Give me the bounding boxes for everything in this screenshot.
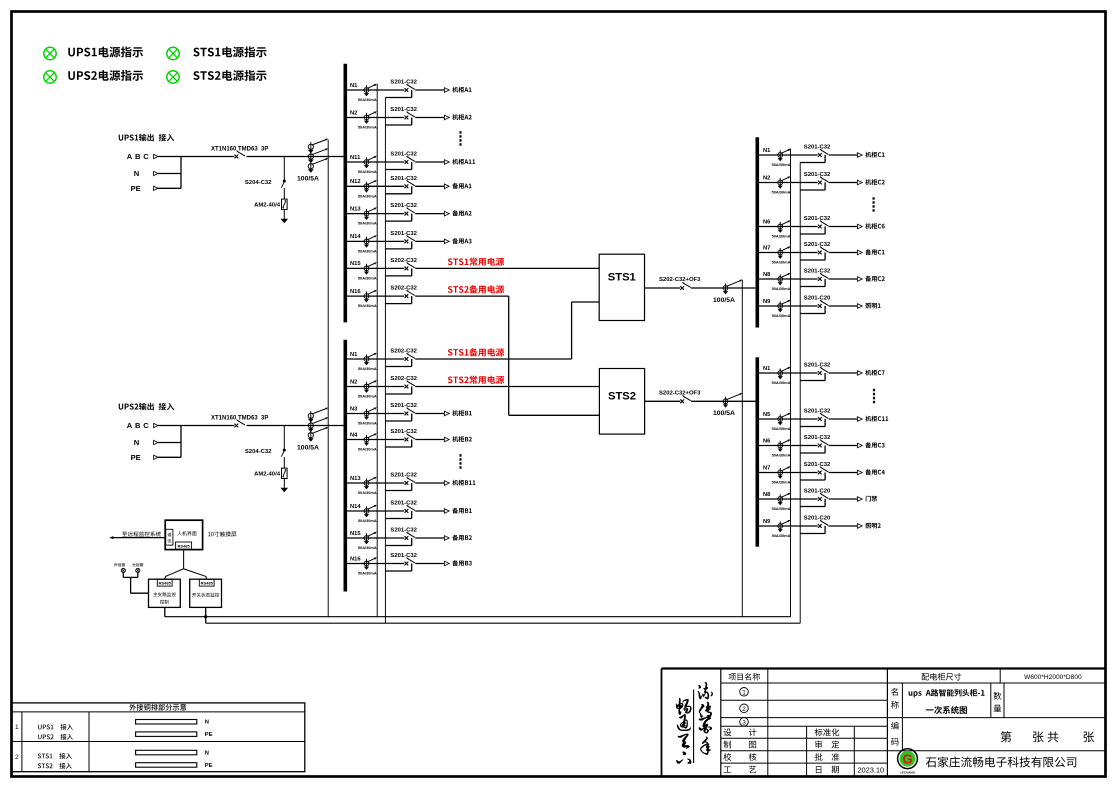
wire breaker to load (N3) [415,413,444,415]
wire busbar to breaker (N9) [759,525,818,527]
wire breaker to load (N5) [829,418,858,420]
label 备用A3 [452,238,471,244]
label 光报警 [132,563,143,567]
table title row line [12,711,305,713]
label 名称 [891,688,899,709]
wire RS485 bus split [165,549,207,579]
wire switch-status collector (left panels) [384,98,386,623]
label STS2 [608,391,636,403]
svg-text:2: 2 [742,706,746,713]
wire UPS2-N1 riser to STS1 standby input [572,302,600,359]
leakage CT 50A/30mA (N2) [364,380,377,393]
label S201-C32 (N2) [804,172,831,178]
wire breaker status stub (N8) [800,499,825,507]
wire busbar to breaker (N13) [347,213,404,215]
label S204-C32 [245,180,272,186]
wire breaker output (N2) [415,386,599,388]
svg-text:XT1N160 TMD63 3P: XT1N160 TMD63 3P [211,147,268,153]
terminal N [154,440,158,444]
leakage CT 50A/30mA (N7) [778,466,791,479]
label UPS1输出 接入 [119,134,174,141]
svg-text:1: 1 [742,689,746,696]
leakage CT 50A/30mA (N8) [778,273,791,286]
node N16 [350,289,361,295]
calligraphy 畅通天下 [676,698,691,763]
label row 2 [15,754,19,761]
leakage CT 50A/30mA (N1) [778,149,791,162]
wire breaker output (N15) [415,267,599,269]
wire breaker status stub (N6) [800,227,825,235]
wire breaker to load (N8) [829,498,858,500]
title col line c [853,726,855,776]
leakage CT 50A/30mA (N2) [364,111,377,124]
svg-text:50A/30mA: 50A/30mA [772,453,791,458]
terminal ABC [154,423,158,427]
load arrow (照明1) [857,304,862,309]
node N1 [763,366,771,372]
label STS1电源指示 [193,47,266,58]
wire busbar to breaker (N12) [347,185,404,187]
numbered item 3 [740,718,749,727]
branch monitor controller box 主支路监控控制 [149,579,181,607]
label S201-C32 (N2) [390,107,417,113]
svg-text:2023.10: 2023.10 [857,765,884,774]
label 50A/30mA (N8) [772,286,791,291]
svg-text:S201-C32: S201-C32 [390,203,417,209]
svg-text:S201-C32: S201-C32 [390,107,417,113]
label 50A/30mA (N13) [358,490,377,495]
label S204-C32 [245,449,272,455]
label 校核 [723,753,756,761]
title row line L6 [721,762,888,764]
svg-text:2: 2 [15,754,19,761]
load arrow (机柜A11) [444,160,449,165]
wire N [158,173,181,175]
leakage CT 50A/30mA (N12) [364,180,377,193]
label 批准 [815,753,840,761]
wire breaker to busbar [247,156,344,158]
wire busbar to breaker (N1) [759,372,818,374]
wire breaker status stub (N14) [385,241,411,249]
wire N [158,442,181,444]
load arrow (机柜B11) [444,481,449,486]
svg-text:50A/30mA: 50A/30mA [358,275,377,280]
breaker S202-C32 (N15) [405,263,415,271]
svg-text:S201-C32: S201-C32 [390,528,417,534]
wire breaker to load (N1) [829,372,858,374]
node N1 [763,148,771,154]
label PE (row2) [205,763,213,769]
label S201-C32 (N1) [804,145,831,151]
STS1 static transfer switch box [599,254,644,320]
svg-text:N15: N15 [350,531,361,537]
label 50A/30mA (N14) [358,518,377,523]
label 外接铜排部分示意 [129,704,186,711]
wire breaker status stub (N15) [385,268,411,276]
label 门禁 [866,496,878,502]
leakage CT 50A/30mA (N1) [364,84,377,97]
leakage CT 50A/30mA (N6) [778,439,791,452]
wire breaker status stub (N1) [800,155,825,163]
svg-text:50A/30mA: 50A/30mA [358,490,377,495]
svg-text:W600*H2000*D800: W600*H2000*D800 [1024,674,1082,681]
title col line a [767,669,769,777]
svg-text:100/5A: 100/5A [713,410,735,417]
wire busbar to breaker (N7) [759,472,818,474]
label S202-C32+OF3 [659,277,701,283]
label 50A/30mA (N2) [772,190,791,195]
node N5 [763,412,771,418]
leakage CT 50A/30mA (N8) [778,493,791,506]
label 机柜A2 [452,114,471,120]
wire breaker status stub (N13) [385,483,411,491]
svg-text:50A/30mA: 50A/30mA [772,162,791,167]
label 100/5A [297,176,319,183]
RS485 port box (branch monitor) [157,579,172,586]
leakage CT 50A/30mA (N9) [778,520,791,533]
label 50A/30mA (N7) [772,480,791,485]
label UPS1 接入 [38,724,73,730]
label S201-C32 (N4) [390,429,417,435]
label AM2-40/4 [254,472,281,478]
svg-text:N3: N3 [350,406,358,412]
wire breaker to load (N7) [829,472,858,474]
load arrow (备用C2) [857,277,862,282]
wire busbar to breaker (N15) [347,267,404,269]
breaker S201-C32 (N14) [405,505,415,513]
svg-text:50A/30mA: 50A/30mA [358,394,377,399]
svg-text:S201-C32: S201-C32 [804,363,831,369]
dots between B2 and B11 [459,454,461,469]
svg-text:50A/30mA: 50A/30mA [358,97,377,102]
dots between C7 and C11 [873,389,875,404]
node N6 [763,219,771,225]
label 工艺 [724,766,757,774]
svg-text:50A/30mA: 50A/30mA [772,480,791,485]
wire breaker to load (N9) [829,525,858,527]
label 50A/30mA (N1) [358,366,377,371]
wire breaker to load (N7) [829,252,858,254]
svg-text:S201-C32: S201-C32 [804,462,831,468]
label S201-C32 (N12) [390,176,417,182]
surge protector AM2-40/4 with switch S204-C32 and ground [281,157,289,224]
load arrow (照明2) [857,524,862,529]
breaker S202-C32+OF3 [680,395,690,403]
current transformer 100/5A [723,393,742,408]
label 50A/30mA (N5) [772,426,791,431]
label 机柜C6 [865,223,884,229]
title row line L1 [721,699,888,701]
label STS1常用电源 [448,258,504,266]
label S201-C32 (N1) [804,363,831,369]
wire busbar to breaker (N6) [759,445,818,447]
label 照明1 [865,303,880,309]
svg-text:S201-C20: S201-C20 [804,516,831,522]
label 备用B1 [452,508,471,514]
label S201-C32 (N13) [390,473,417,479]
wire breaker status stub (N15) [385,538,411,546]
leakage CT 50A/30mA (N11) [364,156,377,169]
label 开关状态监控 [192,593,219,597]
label W600*H2000*D800 [1024,674,1082,681]
svg-text:100/5A: 100/5A [713,297,735,304]
label S201-C20 (N9) [804,516,831,522]
label S201-C32 (N3) [390,403,417,409]
breaker S201-C20 (N9) [818,300,828,308]
wire N-PE junction vertical [180,426,182,458]
switch status monitor box 开关状态监控 [190,579,222,607]
label 机柜B1 [452,410,471,416]
node N9 [763,519,771,525]
table col line 1 [21,712,23,772]
leakage CT 50A/30mA (N3) [364,407,377,420]
copper bar PE (row2) [136,763,197,768]
label 机柜C7 [865,370,884,376]
label S201-C32 (N7) [804,242,831,248]
load arrow (备用C3) [857,443,862,448]
breaker S201-C32 (N1) [818,149,828,157]
wire PE [158,187,181,189]
svg-text:N: N [205,720,209,726]
wire PE [158,456,181,458]
wire branch-CT collector (left panels) [376,84,378,617]
label 50A/30mA (N16) [358,571,377,576]
breaker S201-C32 (N11) [405,156,415,164]
leakage CT 50A/30mA (N1) [778,367,791,380]
svg-text:50A/30mA: 50A/30mA [772,313,791,318]
breaker S201-C32 (N8) [818,273,828,281]
svg-text:N2: N2 [350,379,357,385]
calligraphy divider stroke [693,690,695,764]
wire breaker to load (N4) [415,439,444,441]
breaker S201-C32 (N1) [818,367,828,375]
wire breaker to load (N16) [415,563,444,565]
label 100/5A [297,445,319,452]
wire breaker status stub (N16) [385,564,411,572]
dots between A2 and A11 [459,131,461,146]
breaker S201-C32 (N6) [818,221,828,229]
label 声报警 [114,563,125,567]
label 机柜A1 [452,87,471,93]
label S201-C32 (N5) [804,409,831,415]
svg-text:S201-C32: S201-C32 [804,269,831,275]
wire busbar to breaker (N8) [759,278,818,280]
svg-text:100/5A: 100/5A [297,445,319,452]
breaker S201-C32 (N1) [405,84,415,92]
label 编码 [891,722,899,746]
leakage CT 50A/30mA (N6) [778,220,791,233]
svg-text:C: C [143,421,149,430]
breaker S201-C32 (N7) [818,247,828,255]
svg-text:N7: N7 [763,245,770,251]
wire busbar to breaker (N7) [759,252,818,254]
breaker XT1N160 TMD63 3P [235,151,245,159]
wire breaker status stub (N6) [800,446,825,454]
label 100/5A [713,410,735,417]
label S202-C32 (N16) [390,286,417,292]
load arrow (备用B3) [444,561,449,566]
table mid row line [12,741,305,743]
svg-text:N2: N2 [350,110,357,116]
busbar UPS1 panel [343,64,347,323]
label 50A/30mA (N15) [358,545,377,550]
title block mid divider [886,669,888,777]
svg-text:1: 1 [15,724,19,731]
label 50A/30mA (N16) [358,303,377,308]
label row 1 [15,724,19,731]
breaker S201-C32 (N14) [405,236,415,244]
svg-text:N9: N9 [763,519,771,525]
svg-text:50A/30mA: 50A/30mA [358,125,377,130]
node N7 [763,245,770,251]
title row line L4 [721,737,888,739]
label 50A/30mA (N8) [772,506,791,511]
label 50A/30mA (N2) [358,125,377,130]
breaker S202-C32 (N16) [405,290,415,298]
label UPS1电源指示 [68,47,143,58]
label 50A/30mA (N9) [772,533,791,538]
label ups A路智能列头柜-1 [909,689,985,697]
leakage CT 50A/30mA (N4) [364,433,377,446]
wire breaker status stub (N12) [385,186,411,194]
label 项目名称 [729,673,760,680]
label 制图 [724,741,757,749]
load arrow (备用B1) [444,509,449,514]
svg-text:S201-C32: S201-C32 [390,501,417,507]
terminal N [154,171,158,175]
label S201-C32 (N11) [390,152,417,158]
svg-text:50A/30mA: 50A/30mA [358,169,377,174]
surge protector AM2-40/4 with switch S204-C32 and ground [281,426,289,493]
label 机柜B2 [452,436,472,442]
svg-text:50A/30mA: 50A/30mA [772,380,791,385]
title col line e [990,683,992,718]
node N13 [350,476,361,482]
label 50A/30mA (N1) [358,97,377,102]
label N [134,438,139,447]
label 机柜C1 [865,152,884,158]
wire breaker status stub (N7) [800,473,825,481]
wire ABC to breaker [158,156,234,158]
svg-text:50A/30mA: 50A/30mA [772,190,791,195]
label RS485 (branch monitor) [159,580,172,585]
label 10寸触摸屏 [208,531,236,536]
svg-text:50A/30mA: 50A/30mA [358,366,377,371]
label STS1 [608,272,636,284]
label 机柜B11 [452,480,475,486]
label 50A/30mA (N1) [772,162,791,167]
svg-text:50A/30mA: 50A/30mA [772,533,791,538]
HMI RS485 port box [176,542,192,549]
label 50A/30mA (N14) [358,248,377,253]
wire busbar to breaker (N16) [347,563,404,565]
load arrow (机柜B2) [444,437,449,442]
calligraphy 流传百年 [698,682,713,754]
svg-text:S202-C32: S202-C32 [390,286,417,292]
svg-text:S201-C32: S201-C32 [390,152,417,158]
svg-text:50A/30mA: 50A/30mA [358,545,377,550]
svg-text:50A/30mA: 50A/30mA [358,221,377,226]
label UPS2 接入 [38,734,73,740]
node N3 [350,406,358,412]
leakage CT 50A/30mA (N5) [778,413,791,426]
label 备用A2 [452,210,471,216]
label XT1N160 TMD63 3P [211,416,268,422]
load arrow (备用C4) [857,470,862,475]
load arrow (门禁) [857,497,862,502]
label STS2常用电源 [448,376,504,384]
svg-text:A: A [127,152,133,161]
svg-text:S202-C32: S202-C32 [390,258,417,264]
svg-text:S201-C32: S201-C32 [390,231,417,237]
svg-text:S202-C32+OF3: S202-C32+OF3 [659,277,701,283]
wire busbar to breaker (N1) [759,154,818,156]
wire breaker to load (N6) [829,445,858,447]
wire to remote monitoring with arrow [109,536,165,539]
label 主支路监控 [153,592,176,596]
wire busbar to breaker (N16) [347,295,404,297]
svg-text:N7: N7 [763,465,770,471]
svg-text:N8: N8 [763,492,771,498]
label 机柜A11 [452,159,475,165]
breaker S202-C32+OF3 [680,282,690,290]
label 备用A1 [452,183,471,189]
svg-text:N: N [134,438,139,447]
wire switch-status collector (right panels) [799,162,801,623]
wire breaker to load (N14) [415,510,444,512]
svg-text:S204-C32: S204-C32 [245,180,272,186]
busbar UPS2 panel [343,340,347,592]
copper bar PE (row1) [136,732,197,737]
wire CT-signal collector (left panels) [327,140,329,617]
wire breaker status stub (N16) [385,296,411,304]
label RS485 (HMI) [177,543,190,548]
svg-text:S201-C32: S201-C32 [390,429,417,435]
svg-text:S201-C20: S201-C20 [804,489,831,495]
node N1 [350,83,358,89]
title col line f [1003,683,1005,718]
label 设计 [724,728,757,736]
svg-text:PE: PE [131,453,141,462]
label LECHANG [900,771,915,775]
wire busbar to breaker (N4) [347,439,404,441]
node N14 [350,234,361,240]
svg-text:N4: N4 [350,432,358,438]
svg-text:PE: PE [131,184,141,193]
wire switch status bus (bottom) [206,622,801,624]
wire breaker to load (N13) [415,213,444,215]
svg-text:50A/30mA: 50A/30mA [772,426,791,431]
wire branch monitor to CT bus [164,607,166,616]
label 至远程监控系统 [122,531,161,536]
breaker S201-C32 (N15) [405,532,415,540]
label 50A/30mA (N15) [358,275,377,280]
svg-text:S201-C32: S201-C32 [804,242,831,248]
indicator lamp UPS2 power [44,71,56,83]
node N8 [763,272,771,278]
company logo [898,749,918,769]
wire breaker to busbar [691,400,756,402]
wire breaker to load (N13) [415,482,444,484]
svg-text:B: B [135,152,141,161]
title row line L5 [721,750,888,752]
title row line R3 [887,750,1105,752]
load arrow (备用C1) [857,250,862,255]
label 照明2 [865,523,880,529]
svg-text:50A/30mA: 50A/30mA [358,193,377,198]
wire busbar to breaker (N14) [347,510,404,512]
HMI touch screen box [165,520,202,549]
